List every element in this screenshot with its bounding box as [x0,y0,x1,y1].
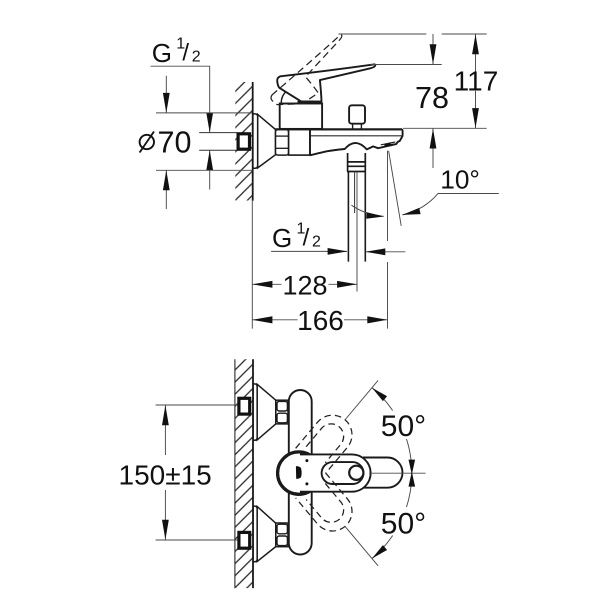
spout deck line [311,135,402,137]
mousseur outlet detail [381,142,396,147]
mixer body bar (plan) [289,390,312,555]
lever handle raised position (dashed) [263,34,361,116]
valve body block (side view) [289,129,310,155]
cartridge dome (plan) [278,452,320,494]
label G1/2 (shower outlet) [272,220,321,253]
union nut lower (plan) [276,523,288,547]
svg-text:166: 166 [297,305,344,336]
cartridge dome arc [281,91,287,104]
lever centerline [369,472,426,474]
wall union fitting upper (plan) [239,398,250,414]
svg-text:70: 70 [158,126,192,160]
dimension 128 [252,271,357,301]
dimension 150 plus-minus 15 [119,405,212,540]
escutcheon lower (plan) [253,506,276,562]
body top edge [276,128,403,130]
spout body (side view) [310,129,403,155]
dimension 117 [454,34,499,128]
shower outlet pipe G1/2 [348,172,365,262]
wall (side view, hatched section) [235,82,252,201]
50 degree ray upper [345,380,378,419]
dome detail dots and indicator [296,459,309,485]
escutcheon base ring (side view) [253,114,258,168]
dimension 166 [252,305,387,336]
escutcheon cone (side view) [258,114,276,167]
lever swung down 50deg (dashed) [296,473,360,539]
shower pipe centerline extension [356,172,358,292]
svg-text:2: 2 [312,233,321,250]
label 50 degrees upper [379,410,426,443]
lever recess slot (plan) [322,462,364,484]
50 degree arc upper [372,388,415,475]
svg-text:10°: 10° [440,165,480,195]
lever handle body (plan) [300,454,371,491]
svg-text:128: 128 [282,271,327,301]
shower outlet connection nut [347,153,366,172]
wall union fitting lower (plan) [239,532,250,548]
wire wall extension line [251,201,253,329]
extension line raised lever top [338,33,486,35]
G1/2 inlet pipe stub [199,133,237,151]
svg-text:150±15: 150±15 [119,460,212,491]
lever swung up 50deg (dashed) [296,407,360,473]
extension lines 150 spacing [156,405,239,540]
10 degree arc with arrows [351,193,438,219]
50 degree arc lower [372,472,415,559]
svg-text:/: / [182,40,189,67]
svg-text:/: / [303,224,310,251]
svg-text:78: 78 [415,81,449,115]
dimension D70 (escutcheon) [140,76,252,209]
leader G1/2 to wall union [151,66,214,189]
cartridge housing (side view) [280,104,322,129]
wall union fitting (side view) [238,134,249,149]
dimension 78 [415,34,449,168]
lever grip tip (plan) [364,458,402,488]
G1/2 outlet arrows [271,248,405,255]
svg-text:G: G [152,38,172,68]
10 degree spout angle lines [388,151,402,329]
svg-text:50°: 50° [381,508,426,541]
50 degree ray lower [345,527,378,566]
lever cap line [298,101,322,103]
escutcheon upper (plan) [253,384,276,440]
wall (plan view, hatched section) [235,359,253,588]
union nut (side view) [276,130,289,156]
extension line lever top [370,64,441,66]
10 degree leader and text [438,165,498,195]
lever handle (side view) [277,64,375,101]
diverter knob [349,105,365,128]
svg-text:117: 117 [454,65,499,96]
label 50 degrees lower [379,507,426,541]
union nut upper (plan) [276,400,288,424]
label G1/2 (wall connection) [152,36,201,69]
svg-text:G: G [272,223,292,253]
svg-text:50°: 50° [381,410,426,443]
svg-text:2: 2 [192,49,201,66]
extension line body top [403,127,487,129]
